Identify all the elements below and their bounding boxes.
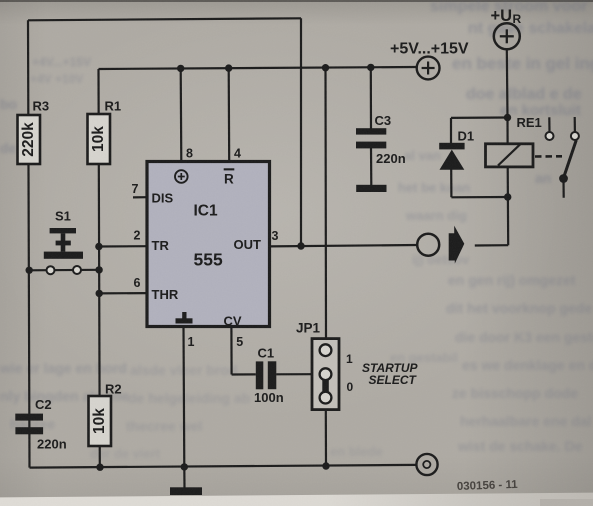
capacitor C3 (356, 113, 406, 166)
relay contact circles (546, 132, 554, 140)
wire: JP1 vertical from rail (324, 68, 327, 339)
wire: RE1 node to coil (506, 118, 508, 145)
relay RE1 coil (486, 115, 542, 167)
jumper JP1 (296, 321, 419, 410)
ghost bleed-through text (430, 0, 587, 16)
wire: pin 7 stub (133, 196, 147, 198)
wire: ground bus bottom (30, 465, 417, 468)
wire: arrow to relay wire (475, 244, 508, 247)
node: pin2 junction (95, 243, 102, 250)
wire: JP1 to bus (325, 410, 327, 466)
wire: pin 5 to C1 (232, 373, 256, 375)
supply terminal +5V (390, 41, 469, 80)
wire: supply rail (99, 67, 417, 69)
node: RE1 top junction (504, 114, 511, 121)
wire: pin 5 vertical (230, 327, 232, 375)
relay pole dot (559, 174, 568, 183)
wire: C3 vertical upper (370, 67, 372, 130)
relay blade (563, 140, 576, 179)
node: S1 right junction (95, 266, 102, 273)
bottom light page strip (0, 492, 593, 506)
capacitor C2 (15, 397, 66, 452)
wire: pin 6 stub (99, 292, 147, 294)
relay mechanical link dashes (535, 155, 562, 158)
wire: pin 2 stub (99, 245, 147, 248)
wire: R1/R2 column vertical (99, 69, 100, 467)
wire: C3 vertical lower to ground (370, 148, 372, 186)
internal ground glyph pin1 (182, 312, 186, 319)
node: OUT feedback junction (297, 242, 304, 249)
wire: pin 1 vertical (182, 327, 185, 467)
node: pin6 junction (96, 290, 103, 297)
node: pin4 on rail (225, 64, 232, 71)
node: JP1 on rail (322, 64, 329, 71)
node: S1 left junction (26, 267, 33, 274)
wire: pin 4 vertical (228, 68, 231, 162)
wire: pin 3 OUT to terminal (270, 245, 418, 246)
resistor R1 (88, 99, 122, 165)
wire: OUT feedback vertical (300, 18, 302, 246)
resistor R2 (89, 382, 122, 447)
supply terminal +UR (491, 7, 522, 49)
wire: ground stub below bus (183, 467, 185, 488)
node: C3 on rail (367, 64, 374, 71)
IC op: 555 timer IC1 (147, 162, 270, 329)
node: pin1 on bus (181, 463, 188, 470)
node: pin8 on rail (177, 65, 184, 72)
wire: D1 top horizontal (451, 116, 508, 119)
wire: pin 8 vertical (180, 68, 183, 162)
resistor R3 (18, 99, 50, 165)
wire: relay pole stub down (562, 179, 564, 198)
plus symbol pin8 inside (175, 170, 188, 183)
terminal 0V (416, 454, 437, 475)
node: R2 on bus (96, 464, 103, 471)
node: D1/coil bottom junction (504, 193, 511, 200)
ground for C3 (356, 185, 386, 192)
wire: +UR vertical to RE1 node (506, 49, 509, 118)
ground main (170, 487, 202, 495)
wire: left vertical R3/C2/S1 column (28, 20, 30, 467)
pushbutton S1 (44, 209, 83, 259)
wire: relay contact stub right (574, 117, 576, 132)
node: JP1 on bus (322, 462, 329, 469)
top dark photo edge (0, 0, 593, 2)
wire: top horizontal R3 to OUT column (28, 18, 301, 20)
capacitor C1 (254, 346, 284, 406)
diode D1 (439, 129, 474, 170)
wire: D1 anode vertical (450, 118, 452, 144)
wire: relay contact stub left (548, 117, 550, 132)
wire: D1 bottom horizontal (451, 196, 507, 199)
output terminal circle (417, 234, 439, 256)
S1 contact circles (47, 266, 55, 274)
wire: S1 row horizontal (29, 269, 99, 272)
wire: C1 to JP1 (276, 373, 312, 375)
output arrow (449, 226, 465, 264)
wire: D1 cathode vertical (450, 170, 452, 198)
wire: coil bottom vertical (507, 167, 510, 245)
